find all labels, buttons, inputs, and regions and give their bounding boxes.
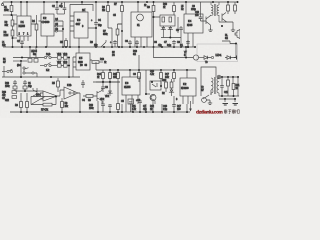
svg-text:C5: C5 [113, 14, 117, 17]
capacitor [108, 105, 112, 107]
resistor R21 [232, 84, 235, 90]
svg-text:4.7k: 4.7k [150, 73, 155, 76]
capacitor C8b [186, 42, 190, 44]
svg-text:R9: R9 [147, 6, 151, 9]
svg-text:IC3: IC3 [77, 19, 81, 22]
gnd row [219, 98, 236, 100]
resistor [61, 102, 64, 108]
svg-text:IC1: IC1 [21, 21, 25, 24]
optocoupler box [160, 15, 175, 26]
capacitor C10 [199, 17, 203, 19]
svg-text:1k: 1k [150, 108, 153, 111]
capacitor [138, 101, 142, 103]
svg-text:CD4060: CD4060 [42, 21, 50, 24]
svg-text:IC1b: IC1b [67, 84, 72, 87]
svg-text:36k: 36k [5, 24, 9, 27]
lamp box [197, 44, 238, 62]
wire top-left second rail [3, 14, 17, 16]
svg-text:C4: C4 [98, 19, 102, 22]
capacitor C5m [113, 42, 117, 44]
op-amp A1 [43, 91, 57, 101]
svg-text:KD9300: KD9300 [181, 87, 189, 90]
diode VD2 [161, 26, 166, 38]
resistor R2 [11, 20, 14, 26]
svg-text:1M: 1M [102, 9, 105, 12]
diode VD6 [64, 56, 68, 59]
svg-text:2: 2 [19, 33, 21, 36]
svg-text:R7 4.7k: R7 4.7k [41, 109, 49, 112]
svg-text:1k: 1k [97, 76, 100, 79]
wire [185, 2, 187, 14]
transistor VT3 [97, 88, 102, 104]
svg-text:100k: 100k [89, 107, 94, 110]
resistor [165, 82, 168, 88]
svg-text:C4: C4 [82, 99, 86, 102]
wire [15, 89, 37, 91]
svg-text:16: 16 [82, 9, 85, 12]
svg-text:0.1μ: 0.1μ [167, 44, 172, 47]
svg-text:R5: R5 [52, 82, 56, 85]
svg-text:LED-1: LED-1 [216, 54, 223, 57]
wire [62, 21, 64, 47]
resistor R7h [43, 103, 52, 106]
svg-text:8Ω: 8Ω [225, 37, 228, 40]
meter circle [137, 14, 144, 21]
svg-text:C5: C5 [121, 100, 125, 103]
capacitor [81, 83, 85, 85]
chain1 diode row [13, 57, 44, 59]
resistor R13h [92, 61, 99, 64]
transistor VT1 [206, 16, 211, 29]
resistor [117, 73, 120, 79]
socket [211, 56, 213, 58]
svg-text:IC2: IC2 [183, 83, 187, 86]
wire [13, 37, 18, 39]
svg-text:10k: 10k [2, 44, 6, 47]
IC3 pin right [79, 28, 96, 47]
IC6 pins [126, 95, 138, 112]
top supply rail [3, 1, 238, 3]
IC2 timer box [41, 14, 54, 36]
capacitor [135, 42, 139, 44]
switch DS-1 [31, 97, 56, 105]
svg-text:C3: C3 [105, 86, 109, 89]
transistor VT6 [202, 98, 207, 103]
bottom right rail [219, 95, 239, 97]
timer IC1 [17, 16, 31, 36]
resistor Rb [86, 95, 93, 98]
svg-text:7: 7 [23, 33, 25, 36]
wire rail2 [96, 81, 120, 83]
svg-text:5m: 5m [33, 53, 36, 56]
IC3 pins left [70, 16, 74, 47]
svg-text:6V: 6V [3, 61, 6, 64]
svg-text:K-2: K-2 [46, 69, 50, 72]
switch contact [23, 67, 25, 69]
capacitor [13, 82, 17, 84]
capacitor C11 [220, 86, 224, 88]
IC5 pins [73, 57, 92, 67]
wire [2, 2, 4, 4]
capacitor C6m [20, 42, 24, 44]
transistor [33, 88, 37, 97]
diode VD [225, 56, 234, 60]
resistor [138, 73, 141, 79]
resistor [160, 73, 163, 79]
wire [177, 17, 179, 33]
svg-text:VD1: VD1 [105, 95, 110, 98]
relay K1 box [131, 12, 152, 37]
transistor VT4 [150, 95, 156, 101]
svg-text:R8: R8 [90, 41, 94, 44]
diode VD7 [58, 64, 62, 67]
diode VD5 [58, 56, 62, 59]
svg-text:8Ω: 8Ω [133, 53, 136, 56]
switch S2 [101, 40, 106, 47]
svg-text:dzdianlu.com: dzdianlu.com [196, 109, 223, 115]
svg-text:3: 3 [176, 98, 178, 101]
ground [231, 28, 235, 31]
svg-text:3: 3 [82, 25, 84, 28]
IC1 pins [13, 24, 37, 41]
wire gnd row [161, 37, 181, 39]
wire [57, 90, 64, 96]
relay pins [135, 37, 147, 47]
resistor R6 [107, 6, 110, 12]
capacitor relay C [128, 42, 132, 44]
svg-text:4017: 4017 [76, 23, 81, 26]
svg-text:R22: R22 [5, 99, 10, 102]
svg-text:15k: 15k [94, 44, 98, 47]
relay K2 box [150, 81, 161, 90]
resistor [109, 73, 112, 79]
svg-text:IC5: IC5 [79, 57, 83, 60]
svg-text:+: + [61, 3, 63, 6]
chain2 row [40, 65, 44, 67]
transformer T1 [210, 2, 213, 16]
svg-text:4.7k: 4.7k [132, 108, 137, 111]
chain right transistor [185, 57, 187, 59]
node [12, 37, 14, 39]
resistor [173, 73, 176, 79]
svg-text:P3: P3 [112, 54, 115, 57]
svg-text:C9: C9 [176, 29, 180, 32]
resistor [170, 82, 173, 88]
svg-text:IC6: IC6 [125, 82, 129, 85]
IC3 counter box [74, 12, 88, 38]
svg-text:NE555: NE555 [124, 86, 131, 89]
transistor VT2 [222, 13, 226, 23]
svg-text:C9: C9 [133, 73, 137, 76]
svg-text:IC4: IC4 [188, 20, 192, 23]
IC5 music box [76, 53, 90, 70]
svg-text:VD2: VD2 [100, 98, 105, 101]
wire [37, 90, 43, 92]
IC4 pins [188, 33, 193, 47]
svg-text:IC2: IC2 [43, 17, 47, 20]
wire [186, 70, 188, 78]
resistor [12, 91, 17, 94]
IC4 box [184, 14, 203, 33]
svg-text:+: + [91, 19, 93, 22]
wire [68, 58, 70, 78]
resistor [102, 73, 105, 79]
capacitor C9 [179, 28, 183, 30]
speaker [235, 30, 240, 39]
bottom-left rail [2, 76, 80, 78]
wire [57, 13, 65, 15]
node [11, 14, 13, 16]
wire box [93, 81, 120, 83]
wire [108, 28, 112, 47]
resistor R12 [234, 5, 237, 11]
svg-text:2.2M: 2.2M [4, 34, 9, 37]
svg-text:Q4: Q4 [55, 18, 59, 21]
resistor R9 [152, 6, 155, 12]
selector switch [2, 71, 7, 73]
svg-text:B0: B0 [80, 64, 83, 67]
IC7 box [180, 78, 196, 96]
capacitor C2 [55, 8, 59, 10]
svg-text:103: 103 [195, 14, 199, 17]
svg-text:150k: 150k [4, 9, 9, 12]
wire to lamp chain [154, 47, 194, 58]
resistor R5m [65, 41, 68, 47]
svg-text:100k: 100k [5, 85, 10, 88]
svg-text:0.1: 0.1 [180, 44, 184, 47]
resistor R5b [57, 81, 60, 87]
capacitor [23, 82, 27, 84]
svg-text:F2: F2 [181, 8, 184, 11]
node [68, 57, 70, 59]
diode [107, 91, 112, 93]
capacitor [101, 104, 105, 106]
svg-text:KD95: KD95 [187, 24, 193, 27]
wire [154, 17, 161, 47]
IC6 box [122, 77, 140, 95]
diode [169, 90, 174, 92]
svg-text:B2: B2 [162, 92, 165, 95]
svg-text:47μ: 47μ [143, 108, 147, 111]
step wire [222, 41, 236, 58]
svg-text:C6: C6 [125, 40, 129, 43]
svg-text:R4: R4 [32, 20, 36, 23]
wire IC3 feedback loop [70, 2, 93, 16]
diode VD [204, 56, 211, 60]
svg-text:20k: 20k [65, 105, 69, 108]
wires below [183, 101, 193, 104]
arrow [234, 56, 237, 60]
resistor R10 [173, 6, 176, 12]
svg-text:C6: C6 [154, 41, 158, 44]
wire [118, 23, 123, 25]
ground [208, 28, 212, 31]
resistor [117, 104, 120, 110]
IC3 pin 16 [84, 8, 86, 12]
svg-text:2.2μ: 2.2μ [163, 108, 168, 111]
switch K1a [44, 56, 46, 58]
svg-text:DS-1: DS-1 [36, 94, 42, 97]
IC2 pins [39, 21, 64, 47]
wire [129, 70, 131, 77]
resistor R11 [227, 5, 230, 11]
wire [30, 47, 36, 58]
small boxes top-left chain [28, 59, 32, 63]
signal arrow [190, 101, 192, 109]
svg-text:R7: R7 [114, 3, 118, 6]
wire [78, 47, 80, 53]
svg-text:10μ: 10μ [28, 85, 32, 88]
diode VD3 [168, 26, 173, 38]
mid-bottom rail [96, 69, 196, 71]
resistor R20b [227, 80, 230, 86]
svg-text:R3: R3 [15, 104, 19, 107]
circles in A2 [69, 92, 71, 94]
wire [146, 70, 150, 94]
input terminal [1, 4, 3, 6]
svg-text:100: 100 [177, 108, 181, 111]
wire [137, 2, 139, 12]
resistor R1 [10, 6, 13, 12]
watermark [196, 109, 239, 115]
wire IC1 supply [21, 2, 27, 16]
svg-text:10μ: 10μ [98, 24, 102, 27]
capacitor C3 [63, 8, 67, 10]
resistor R8v [116, 29, 119, 35]
IC7 pins [183, 96, 193, 101]
resistor R4 [35, 24, 38, 30]
transistor VT5 [203, 90, 211, 99]
capacitor C4 [94, 23, 98, 25]
mid rail [3, 46, 196, 48]
bottom rail [10, 111, 190, 113]
transformer T2 [211, 78, 213, 95]
svg-text:1k: 1k [163, 6, 166, 9]
resistor R3 [11, 30, 14, 36]
svg-text:C2: C2 [52, 5, 56, 8]
wire [13, 60, 27, 62]
svg-text:1k: 1k [104, 61, 107, 64]
op-amp A2 [64, 87, 78, 99]
transistor VT [193, 55, 198, 60]
wire [4, 66, 37, 77]
svg-text:K1: K1 [137, 24, 140, 27]
diode VD8 [64, 64, 68, 67]
svg-text:06: 06 [85, 64, 88, 67]
svg-text:6V: 6V [201, 89, 204, 92]
svg-text:1: 1 [27, 33, 29, 36]
lamp row [217, 75, 221, 79]
svg-text:R9: R9 [88, 99, 92, 102]
resistor inside [162, 17, 165, 22]
transformer top leads [201, 67, 216, 96]
capacitor [101, 87, 105, 89]
svg-text:680k: 680k [103, 33, 108, 36]
resistor R7 top [121, 6, 124, 12]
wire IC2 supply [43, 2, 45, 14]
capacitor C7 [172, 42, 176, 44]
svg-text:NE555: NE555 [19, 25, 26, 28]
pin bubbles [55, 25, 57, 27]
